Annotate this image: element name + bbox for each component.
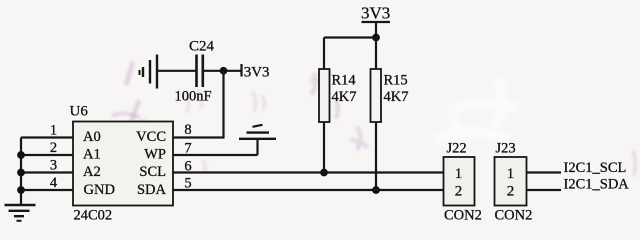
svg-text:2: 2 <box>50 140 57 156</box>
svg-text:A0: A0 <box>83 129 101 145</box>
wire: pin 2 stub (A1) <box>21 154 73 156</box>
svg-text:4: 4 <box>50 175 58 191</box>
capacitor C24 <box>197 55 203 88</box>
svg-text:4K7: 4K7 <box>384 89 409 105</box>
wire: left ground bus <box>20 138 22 205</box>
svg-text:VCC: VCC <box>136 129 166 145</box>
svg-text:5: 5 <box>184 176 191 192</box>
watermark stroke near C24 ground <box>126 62 139 122</box>
wire: C24 right plate to 3V3 terminal <box>203 70 242 72</box>
svg-text:4K7: 4K7 <box>332 89 357 105</box>
svg-text:24C02: 24C02 <box>74 208 113 224</box>
wire: ground to C24 left plate <box>157 70 196 72</box>
node: C24/VCC junction dot <box>220 67 228 75</box>
svg-text:7: 7 <box>184 141 191 157</box>
svg-text:100nF: 100nF <box>175 89 212 105</box>
wire: SDA net (pin 5 to J22) <box>173 189 444 191</box>
ground symbol (earth, bottom left) <box>5 205 36 221</box>
svg-text:U6: U6 <box>70 104 89 120</box>
wire: R15 top lead <box>375 38 377 70</box>
wire: SCL net (pin 6 to J22) <box>173 171 444 173</box>
watermark faint mark below 100nF <box>203 160 205 172</box>
watermark strokes near 100nF <box>185 90 202 112</box>
svg-text:3: 3 <box>50 158 57 174</box>
svg-text:WP: WP <box>144 147 166 163</box>
wire: pin 7 stub (WP) <box>173 154 258 156</box>
svg-text:8: 8 <box>184 122 191 138</box>
svg-text:1: 1 <box>455 166 463 182</box>
svg-text:SCL: SCL <box>139 164 166 180</box>
wire: pin 4 stub (GND) <box>21 189 73 191</box>
svg-text:I2C1_SDA: I2C1_SDA <box>564 177 630 193</box>
watermark white character mid-right <box>436 78 518 140</box>
watermark strokes near U6 <box>112 113 153 139</box>
resistor R15 body <box>371 69 382 122</box>
node: R14/SCL junction dot <box>320 169 328 177</box>
wire: pin 1 stub (A0) <box>21 136 73 138</box>
svg-text:GND: GND <box>84 182 115 198</box>
wire: J23 pin 2 stub to I2C1_SDA <box>527 189 562 191</box>
svg-text:3V3: 3V3 <box>361 4 390 23</box>
svg-text:6: 6 <box>184 159 191 175</box>
ground symbol (WP, inverted) <box>239 125 276 155</box>
svg-text:2: 2 <box>455 184 463 200</box>
wire: 3V3 rail to R14 top <box>324 36 376 38</box>
watermark blob inside U6 left <box>95 130 117 145</box>
svg-text:J22: J22 <box>447 141 467 157</box>
node: bus/GND junction dot <box>17 186 25 194</box>
watermark big character near R14 <box>310 73 368 150</box>
power terminal 3V3 (at C24) <box>242 64 270 81</box>
resistor R14 body <box>319 69 330 122</box>
node: bus/A2 junction dot <box>17 169 25 177</box>
svg-text:2: 2 <box>507 184 515 200</box>
svg-text:CON2: CON2 <box>495 208 533 224</box>
svg-text:I2C1_SCL: I2C1_SCL <box>564 160 627 176</box>
wire: R14 top lead <box>323 38 325 70</box>
power symbol 3V3 (top) <box>361 4 390 38</box>
svg-text:R15: R15 <box>384 73 408 89</box>
svg-text:CON2: CON2 <box>444 208 482 224</box>
svg-text:R14: R14 <box>332 73 357 89</box>
node: R15/SDA junction dot <box>372 186 380 194</box>
wire: VCC junction down to pin 8 <box>222 71 224 138</box>
svg-text:SDA: SDA <box>137 182 167 198</box>
IC U6 24C02 body <box>73 122 173 206</box>
wire: J23 pin 1 stub to I2C1_SCL <box>527 171 562 173</box>
svg-text:C24: C24 <box>189 39 215 55</box>
svg-text:3V3: 3V3 <box>244 65 270 81</box>
wire: R14 bottom lead to SCL net <box>323 122 325 173</box>
svg-text:A1: A1 <box>83 147 101 163</box>
node: 3V3 junction dot <box>372 34 380 42</box>
svg-text:J23: J23 <box>496 141 516 157</box>
connector J23 body <box>495 157 527 206</box>
ground symbol (left of C24, sideways) <box>140 55 158 89</box>
watermark strokes above WP ground <box>252 92 264 112</box>
wire: pin 3 stub (A2) <box>21 171 73 173</box>
node: bus/A1 junction dot <box>17 151 25 159</box>
connector J22 body <box>444 157 475 206</box>
watermark purple at right edge <box>633 150 635 176</box>
svg-text:1: 1 <box>50 123 57 139</box>
svg-text:A2: A2 <box>83 164 101 180</box>
svg-text:1: 1 <box>507 166 515 182</box>
wire: pin 8 stub <box>173 136 225 138</box>
wire: R15 bottom lead to SDA net <box>375 122 377 190</box>
